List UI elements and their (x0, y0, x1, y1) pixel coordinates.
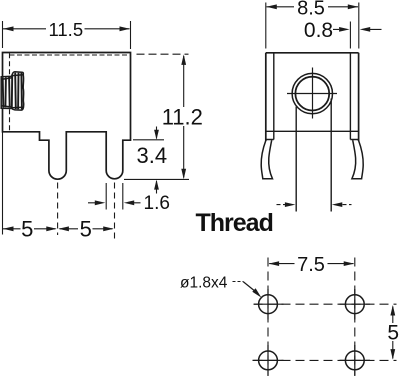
left hook (261, 140, 272, 179)
footprint hole bottom-right (345, 351, 364, 370)
hidden dashed line inside body (9, 53, 11, 131)
screw (threaded) on left side (1, 72, 24, 110)
footprint hole top-right (345, 295, 364, 314)
dim 11.2 line (183, 56, 185, 178)
svg-text:11.2: 11.2 (162, 105, 203, 130)
thread hole inner circle (295, 77, 329, 111)
svg-text:11.5: 11.5 (48, 19, 83, 40)
svg-text:1.6: 1.6 (144, 193, 170, 214)
footprint hole top-left (259, 295, 278, 314)
dim 0.8 (349, 22, 351, 49)
footprint hole bottom-left (259, 351, 278, 370)
thread hole crosshair (287, 68, 337, 119)
leader for hole size (233, 281, 244, 283)
svg-text:7.5: 7.5 (297, 254, 325, 276)
footprint center dashed lines (254, 304, 397, 360)
front view outer side edges (266, 53, 359, 141)
dim 3.4 extension + arrows (133, 139, 164, 141)
dim 5,5 extension lines (2, 132, 4, 235)
svg-text:8.5: 8.5 (297, 0, 325, 20)
svg-text:5: 5 (21, 217, 33, 242)
thread hole outer circle (292, 73, 332, 113)
left side view body outline (3, 53, 131, 180)
front view inner wall lines (274, 53, 351, 140)
svg-text:ø1.8x4: ø1.8x4 (180, 274, 228, 291)
dim 11.2 extension lines (137, 53, 189, 55)
dim 7.5 (269, 263, 353, 265)
front view step notches (266, 139, 359, 141)
svg-text:5: 5 (387, 322, 399, 345)
svg-text:0.8: 0.8 (304, 19, 333, 42)
front view bottom edge line (266, 130, 359, 132)
footprint circle crosshairs (253, 289, 371, 376)
svg-text:5: 5 (80, 217, 92, 242)
dim 8.5 (266, 3, 359, 49)
center legs (296, 99, 331, 212)
dim 11.5 line (3, 28, 130, 30)
inner top dashed line (10, 54, 130, 56)
leg pointers under front view (277, 204, 286, 206)
svg-text:3.4: 3.4 (137, 143, 168, 168)
dim 5 (right) (392, 307, 394, 359)
front view top edge (266, 52, 359, 54)
svg-text:Thread: Thread (196, 209, 273, 237)
right hook (352, 140, 363, 179)
dim 5,5 lines (3, 228, 113, 230)
dim 11.5 extension lines (3, 21, 131, 49)
dim 1.6 extension lines (106, 183, 123, 210)
